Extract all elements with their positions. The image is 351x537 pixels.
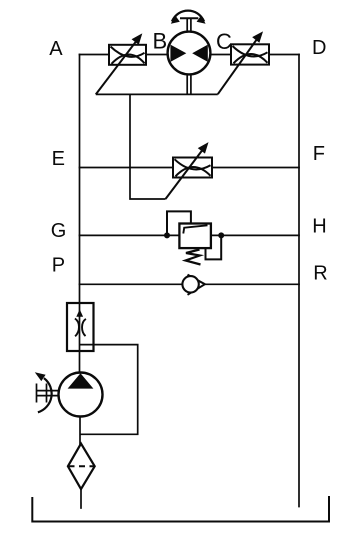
bidirectional rotation arrow above motor [172,11,204,22]
wire: left rail below filter into tank [80,489,82,508]
arrow inside pressure valve [183,225,207,233]
check valve CV1 seat [188,275,205,295]
wire: rail G-H [80,234,300,236]
pilot line loop (right, under valve) [206,235,222,259]
filter F1 diamond [68,444,95,490]
svg-text:D: D [312,37,326,59]
wire: rail C segment (motor to valve) [211,54,232,56]
svg-text:F: F [313,143,325,165]
svg-text:H: H [312,216,326,238]
port labels [49,28,327,284]
pump shaft [36,384,59,403]
arrow of valve V1 [96,35,141,94]
pressure relief valve PV1 body [179,224,211,249]
wire: left rail vertical [79,55,81,373]
wire: rail E left segment [80,167,174,169]
wire: left rail below pump [79,417,81,445]
motor bottom shaft [187,74,191,94]
wire: rail B segment (valve to motor) [146,54,168,56]
svg-text:P: P [52,255,65,277]
wire: right rail vertical [298,55,300,507]
tank / reservoir [32,496,329,522]
motor top shaft [180,18,198,32]
spring of pressure valve [186,250,201,265]
wire: rail P left segment [80,283,184,285]
throttle unit box (left column) [67,303,94,351]
motor M1 [168,32,211,75]
arrow of valve V3 [166,144,208,199]
motor triangles [170,45,207,62]
wire: linkage bar under motor [96,93,218,95]
arrowhead on line inside throttle box [76,309,83,317]
wire: rail F right segment [212,167,299,169]
svg-text:A: A [49,38,63,60]
flow control valve V3 (E-F) [173,158,212,178]
svg-text:G: G [51,220,67,242]
wire: bypass loop from throttle box to below pump [80,345,138,435]
svg-text:C: C [216,29,232,54]
rotation arrow at pump shaft [35,372,52,412]
wire: rail D right segment [269,54,299,56]
wire: link vertical from bar [130,94,166,199]
svg-text:B: B [153,28,168,53]
throttle pinch curves [75,319,86,337]
check valve CV1 ball [182,276,198,292]
node: junction dot left of pressure valve [164,232,170,238]
svg-text:R: R [313,262,327,284]
node: junction dot right of pressure valve [218,232,224,238]
wire: rail R right segment [205,283,299,285]
arrow of valve V2 [218,33,262,94]
flow control valve V1 (A-B) [109,45,146,65]
pilot line loop (left, over top of valve) [167,211,191,235]
wire: rail A left segment [80,54,110,56]
pump P1 [59,373,103,417]
filter dashed element [69,465,95,467]
flow control valve V2 (C-D) [231,44,269,64]
pump triangle [68,373,94,388]
svg-text:E: E [52,148,65,170]
